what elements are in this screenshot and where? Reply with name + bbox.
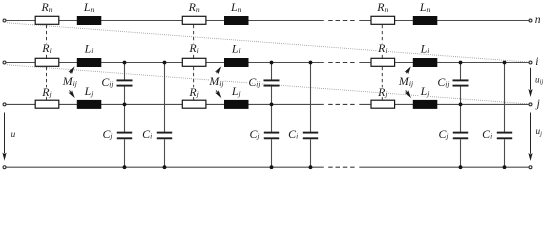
wire row n rail right segment <box>359 20 529 22</box>
mutual coupling arrow to L_i cell 3 <box>405 65 413 74</box>
right terminal ground <box>529 166 532 169</box>
wire node line A cell 3 (j to C_j) <box>460 104 462 131</box>
resistor R_i cell 3 <box>371 58 395 66</box>
junction dot ground line A cell 3 <box>459 165 463 169</box>
capacitor C_ij cell 2 <box>264 80 280 85</box>
right terminal node n <box>529 19 532 22</box>
wire node line A cell 2 (i to C_ij) <box>271 63 273 80</box>
wire node line A cell 2 (C_ij to j) <box>271 86 273 104</box>
junction dot row j line A cell 3 <box>459 103 463 107</box>
inductor L_i cell 3 <box>413 58 438 67</box>
inductor L_n cell 3 <box>413 16 438 25</box>
dashed alignment line cell 1 <box>46 25 48 100</box>
resistor R_n cell 1 <box>35 16 59 24</box>
wire node line B cell 2 (i to C_i) <box>310 63 312 132</box>
wire ground rail right segment <box>359 166 529 168</box>
inductor L_j cell 3 <box>413 100 438 109</box>
wire node line A cell 3 (C_ij to j) <box>460 86 462 104</box>
wire ground rail left segment <box>6 166 324 168</box>
resistor R_n cell 3 <box>371 16 395 24</box>
wire node line B cell 1 (C_i to ground) <box>164 139 166 167</box>
wire node line A cell 1 (j to C_j) <box>124 104 126 131</box>
wire row n rail continuation break (dashed) <box>328 20 355 22</box>
voltage arrow u_ij <box>528 68 532 97</box>
capacitor C_i cell 1 <box>157 133 172 139</box>
junction dot row i line A cell 3 <box>459 61 463 65</box>
wire row n rail left segment <box>6 20 324 22</box>
wire node line A cell 2 (C_j to ground) <box>271 139 273 167</box>
inductor L_n cell 1 <box>77 16 102 25</box>
inductor L_j cell 2 <box>224 100 249 109</box>
svg-text:n: n <box>535 13 541 26</box>
voltage arrow u_j <box>528 113 532 162</box>
capacitor C_j cell 3 <box>453 133 468 139</box>
wire node line A cell 1 (C_j to ground) <box>124 139 126 167</box>
dashed alignment line cell 2 <box>193 25 195 100</box>
wire node line B cell 3 (i to C_i) <box>504 63 506 132</box>
mutual coupling arrow to L_j cell 3 <box>405 90 413 99</box>
left terminal ground <box>3 166 6 169</box>
wire row j rail left segment <box>6 103 324 105</box>
capacitor C_j cell 1 <box>117 133 132 139</box>
right terminal node j <box>529 103 532 106</box>
wire node line A cell 1 (C_ij to j) <box>124 86 126 104</box>
wire node line B cell 3 (C_i to ground) <box>504 139 506 167</box>
junction dot row j line A cell 1 <box>123 103 127 107</box>
resistor R_j cell 3 <box>371 100 395 108</box>
resistor R_j cell 2 <box>182 100 206 108</box>
dotted coupling line n-to-i <box>7 23 529 62</box>
wire node line A cell 3 (C_j to ground) <box>460 139 462 167</box>
svg-text:u: u <box>11 129 16 139</box>
resistor R_n cell 2 <box>182 16 206 24</box>
mutual coupling arrow to L_i cell 2 <box>215 65 223 74</box>
inductor L_n cell 2 <box>224 16 249 25</box>
capacitor C_ij cell 1 <box>117 80 133 85</box>
junction dot ground line B cell 3 <box>503 165 507 169</box>
wire node line B cell 2 (C_i to ground) <box>310 139 312 167</box>
capacitor C_i cell 2 <box>303 133 318 139</box>
junction dot ground line B cell 2 <box>309 165 313 169</box>
wire row i rail left segment <box>6 62 324 64</box>
wire row i rail continuation break (dashed) <box>328 62 355 64</box>
left terminal row i <box>3 61 6 64</box>
dashed alignment line cell 3 <box>381 25 383 100</box>
junction dot row i line A cell 2 <box>270 61 274 65</box>
mutual coupling arrow to L_j cell 2 <box>215 90 223 99</box>
inductor L_i cell 2 <box>224 58 249 67</box>
junction dot row j line A cell 2 <box>270 103 274 107</box>
resistor R_i cell 2 <box>182 58 206 66</box>
junction dot row i line B cell 2 <box>309 61 313 65</box>
resistor R_i cell 1 <box>35 58 59 66</box>
left terminal row n <box>3 19 6 22</box>
wire row j rail right segment <box>359 103 529 105</box>
junction dot row i line A cell 1 <box>123 61 127 65</box>
wire node line A cell 2 (j to C_j) <box>271 104 273 131</box>
resistor R_j cell 1 <box>35 100 59 108</box>
junction dot row i line B cell 1 <box>163 61 167 65</box>
mutual coupling arrow to L_j cell 1 <box>69 90 77 99</box>
junction dot ground line A cell 2 <box>270 165 274 169</box>
voltage arrow u (left) <box>2 113 6 161</box>
svg-text:i: i <box>535 55 538 68</box>
capacitor C_j cell 2 <box>264 133 279 139</box>
right terminal node i <box>529 61 532 64</box>
wire ground rail continuation break (dashed) <box>328 166 355 168</box>
capacitor C_i cell 3 <box>497 133 512 139</box>
mutual coupling arrow to L_i cell 1 <box>68 65 76 74</box>
wire node line B cell 1 (i to C_i) <box>164 63 166 132</box>
capacitor C_ij cell 3 <box>453 80 469 85</box>
wire node line A cell 3 (i to C_ij) <box>460 63 462 80</box>
inductor L_j cell 1 <box>77 100 102 109</box>
junction dot ground line A cell 1 <box>123 165 127 169</box>
dotted coupling line i-to-j <box>7 65 529 104</box>
junction dot ground line B cell 1 <box>163 165 167 169</box>
junction dot row i line B cell 3 <box>503 61 507 65</box>
left terminal row j <box>3 103 6 106</box>
wire node line A cell 1 (i to C_ij) <box>124 63 126 80</box>
wire row i rail right segment <box>359 62 529 64</box>
wire row j rail continuation break (dashed) <box>328 103 355 105</box>
inductor L_i cell 1 <box>77 58 102 67</box>
